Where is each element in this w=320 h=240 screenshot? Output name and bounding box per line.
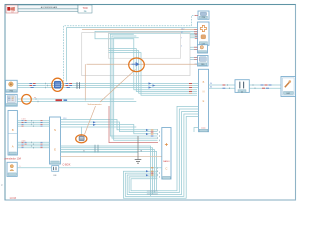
pin tick T1 — [195, 15, 199, 17]
wire B upper right line4 — [61, 126, 137, 128]
blue arrows on B upper — [93, 121, 96, 126]
wire bundle A-B line2 — [17, 122, 49, 124]
wire B upper right line3 — [61, 125, 158, 134]
wire corner dcD to U1 — [109, 53, 198, 96]
wire tan horizontal to U1 — [195, 63, 198, 65]
wire solid top loop — [67, 28, 198, 82]
wire code marks bundle1 left — [30, 84, 36, 88]
pin ticks T2 — [194, 30, 198, 39]
pin symbols bundle1 — [46, 83, 48, 89]
wire stub T2 lower — [190, 34, 198, 38]
svg-text:RADIO: RADIO — [163, 160, 170, 163]
component U1 body computer — [199, 69, 209, 131]
connector in ellipse4 — [79, 135, 84, 141]
wire B lower right line4 — [61, 151, 157, 190]
wire bundle P1 line2 — [17, 85, 198, 87]
svg-text:1 2 3: 1 2 3 — [22, 119, 26, 121]
highlight circle 3 — [129, 58, 145, 72]
svg-text:31: 31 — [83, 151, 85, 153]
svg-text:H01: H01 — [287, 93, 290, 95]
component S ignition switch — [281, 77, 296, 97]
inline connector X1 highlighted — [54, 81, 61, 88]
pin ticks T4 — [194, 58, 198, 60]
marks on C wire right — [151, 167, 154, 169]
connector T2 — [198, 22, 210, 45]
svg-text:4 1: 4 1 — [181, 32, 183, 34]
wire bundle P2 line1 — [17, 98, 134, 100]
blue flow arrows on bundle1 — [149, 82, 156, 88]
sheet number box — [78, 5, 92, 13]
wire hairpin loop 1 — [131, 106, 199, 190]
gray module outline 1 — [82, 33, 190, 76]
wire hairpin loop 4 — [125, 114, 198, 196]
component P1 cigarette lighter — [6, 80, 18, 92]
junction marker in circle3 — [132, 62, 140, 67]
wire teal t2a — [95, 31, 198, 89]
wire B upper right line1 — [61, 120, 158, 130]
svg-text:7: 7 — [181, 38, 182, 40]
wire hairpin loop 3 — [127, 112, 198, 195]
svg-text:30: 30 — [210, 83, 212, 85]
page border frame — [5, 5, 296, 201]
svg-text:C10: C10 — [202, 17, 205, 19]
connector T1 — [198, 11, 209, 19]
svg-text:C-BOX: C-BOX — [63, 163, 71, 166]
wire bundle P2 line2 — [17, 101, 136, 103]
wire bundle A-B lower line3 — [17, 145, 49, 147]
wire n-loop C radio to T2 — [114, 38, 158, 141]
svg-text:Schianamento: Schianamento — [88, 103, 103, 106]
marks on radio lower pins — [146, 170, 149, 176]
svg-text:H30: H30 — [10, 91, 13, 93]
inline connector X2 — [235, 80, 249, 94]
svg-text:A: A — [12, 145, 14, 149]
wire bundle A-B lower line1 — [17, 141, 49, 143]
svg-text:2: 2 — [181, 45, 182, 47]
wire bundle A-B lower line4 — [17, 147, 49, 149]
leader line to ellipse4 — [85, 106, 96, 135]
marks on A-B bundle2 — [22, 142, 27, 147]
highlight ellipse 4 — [76, 135, 87, 143]
wire red loop — [109, 106, 158, 143]
wire bundle A-B line1 — [17, 120, 49, 122]
svg-text:N: N — [203, 91, 205, 94]
svg-text:C40: C40 — [201, 64, 204, 66]
gray module outline 2 — [109, 32, 181, 59]
wire bundle A-B line4 — [17, 125, 49, 127]
wire hairpin loop 5 — [123, 117, 198, 199]
leader line to circle3 — [100, 70, 136, 103]
wire right run line1 — [209, 84, 282, 86]
svg-text:N: N — [54, 128, 56, 132]
connector T3 — [198, 45, 208, 53]
highlight circle 1 — [52, 78, 63, 91]
wire drop to ellipse4 connector — [81, 127, 83, 137]
component B junction unit — [50, 117, 61, 164]
wire bundle P1 line3 — [17, 87, 198, 89]
svg-text:1.0 03: 1.0 03 — [10, 198, 17, 200]
svg-text:4 5 6: 4 5 6 — [22, 140, 26, 142]
right run marks right — [253, 84, 255, 89]
wire stub T3 — [190, 47, 198, 49]
highlight circle 2 — [22, 95, 32, 105]
component A fuse box — [8, 111, 17, 156]
ground wire — [137, 136, 139, 160]
wire code marks before U1 — [189, 84, 192, 94]
right run marks left — [223, 85, 226, 88]
U1 bottom stub — [194, 128, 199, 133]
wire dashed top loop — [64, 16, 199, 82]
svg-text:C1: C1 — [241, 91, 243, 93]
border accent top — [5, 4, 296, 6]
wire teal t2b — [109, 33, 198, 91]
wire tan top — [82, 29, 198, 31]
component C lower connector — [7, 162, 17, 176]
wire n-loop B radio to T2 — [112, 36, 158, 138]
svg-text:86: 86 — [210, 86, 212, 88]
svg-text:prendedor 10A: prendedor 10A — [5, 158, 22, 161]
pin symbols bundle2 — [36, 98, 38, 102]
wire tan vertical drop — [84, 64, 86, 100]
svg-text:ACCENDISIGARI: ACCENDISIGARI — [41, 6, 58, 9]
wire B lower right line3 — [61, 150, 155, 193]
wire tan B to radio — [61, 156, 162, 158]
svg-text:10 2: 10 2 — [181, 28, 184, 30]
svg-text:1: 1 — [20, 166, 21, 168]
wire n-loop A radio to T2 — [110, 34, 157, 136]
wire corner dcC to U1 — [109, 51, 198, 94]
wire bundle A-B lower line2 — [17, 143, 49, 145]
title bar — [18, 5, 78, 11]
title block logo box — [6, 5, 18, 13]
RADIO upper pin marks — [146, 129, 149, 135]
marks on A-B bundle1 — [22, 121, 27, 126]
ground symbol — [135, 160, 142, 164]
component RADIO unit — [162, 128, 171, 180]
wire bundle A-B line3 — [17, 123, 49, 125]
wire hairpin loop 2 — [129, 109, 198, 193]
wire B to ground — [61, 151, 139, 153]
svg-text:E: E — [54, 148, 56, 152]
inline connector on C wire — [52, 166, 59, 177]
svg-text:B: B — [12, 128, 14, 132]
connector T4 — [198, 56, 209, 67]
svg-text:xx: xx — [34, 97, 36, 99]
wire stub T4 — [190, 58, 198, 60]
wire code marks bundle1 right — [66, 82, 80, 88]
double slash connector on B lower bundle — [95, 145, 98, 153]
wire bundle P1 line1 — [17, 83, 198, 85]
component P2 cluster — [6, 94, 18, 106]
svg-text:C: C — [165, 167, 167, 171]
svg-text:12 8: 12 8 — [63, 118, 66, 120]
wire code marks bundle2 — [56, 99, 63, 101]
wire right run line2 — [209, 87, 282, 89]
wire B lower right line1 — [61, 146, 151, 196]
border accent left — [4, 5, 6, 201]
wire from C — [17, 167, 162, 169]
wire B lower right line2 — [61, 148, 153, 195]
double bars on vertical bundle — [147, 191, 158, 194]
pin tick T3 — [194, 47, 198, 49]
wire B upper right line2 — [61, 122, 158, 132]
